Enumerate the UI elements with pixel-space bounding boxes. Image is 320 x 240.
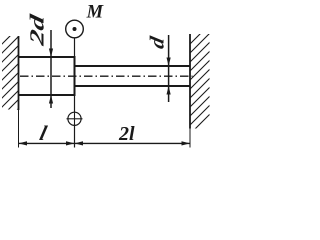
svg-text:2d: 2d bbox=[27, 12, 49, 49]
svg-text:2l: 2l bbox=[118, 123, 135, 145]
svg-text:M: M bbox=[86, 3, 104, 23]
